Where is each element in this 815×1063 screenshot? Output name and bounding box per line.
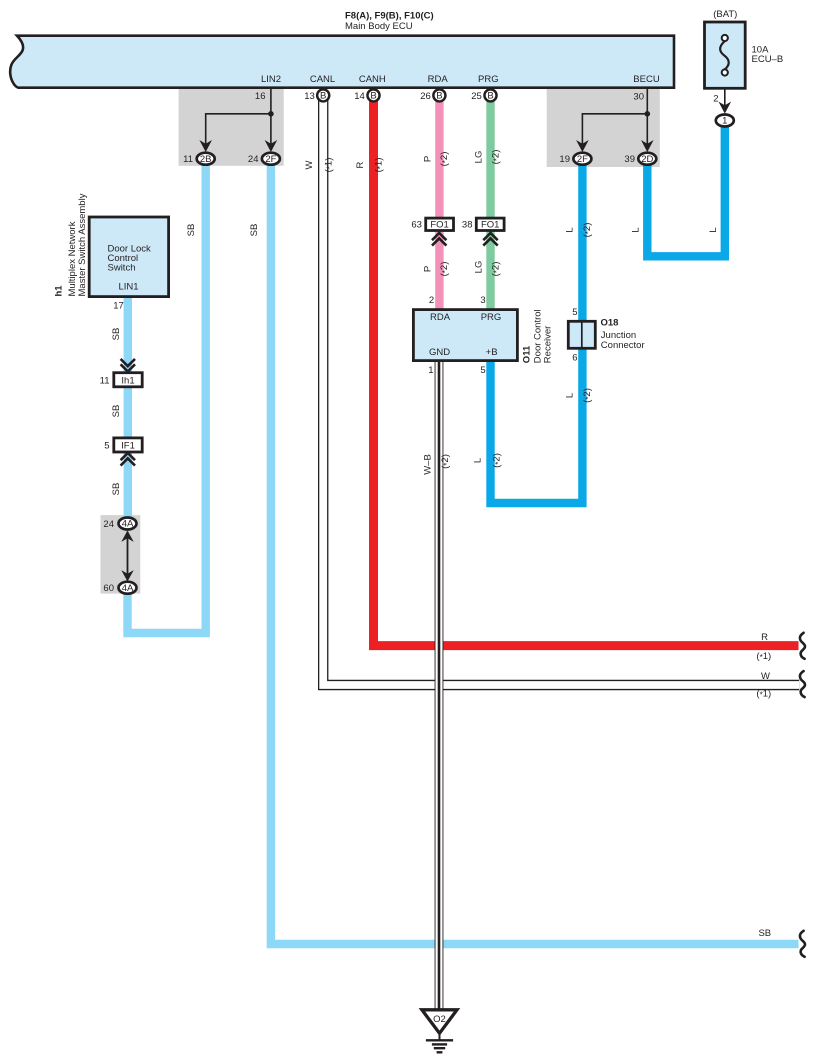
svg-text:5: 5: [572, 307, 577, 318]
label LG upper on PRG wire: [474, 151, 485, 164]
label O11: [522, 345, 533, 363]
svg-text:4A: 4A: [122, 519, 134, 530]
O11 pin 2: [429, 295, 434, 306]
label Door Control: [533, 309, 544, 363]
wire SB from 2B to 4A link: [128, 165, 206, 633]
svg-text:LG: LG: [474, 151, 485, 164]
arrow into fuse output 1: [719, 102, 732, 114]
label (*2) lower on RDA wire: [439, 262, 450, 277]
svg-text:1: 1: [722, 116, 727, 127]
svg-text:L: L: [472, 458, 483, 463]
wire P from RDA to O11: [435, 100, 443, 310]
FO1 connector pin 38: [462, 218, 504, 230]
connector circle B pin 26: [433, 89, 445, 101]
svg-text:(*1): (*1): [756, 689, 771, 700]
ECU pin PRG: [471, 74, 498, 102]
O11 Door Control Receiver box: [413, 310, 517, 361]
svg-text:IF1: IF1: [121, 440, 135, 451]
ECU pin CANH: [354, 74, 386, 102]
label P upper on RDA wire: [423, 156, 434, 162]
label SB at right end: [758, 928, 771, 939]
svg-text:2D: 2D: [641, 154, 653, 165]
junction node on BECU branch: [645, 111, 651, 117]
svg-text:2B: 2B: [200, 154, 212, 165]
svg-text:CANL: CANL: [310, 74, 335, 85]
svg-text:39: 39: [624, 154, 635, 165]
svg-text:11: 11: [100, 375, 110, 386]
wire LIN2 branch inside splice block: [206, 88, 271, 146]
svg-text:O11: O11: [522, 345, 533, 363]
svg-text:(*2): (*2): [439, 262, 450, 277]
svg-text:P: P: [423, 266, 434, 272]
label L on +B wire: [472, 458, 483, 463]
wire W-B from GND to ground: [435, 360, 444, 1010]
arrow into 2B: [199, 140, 212, 152]
ground stem and hatching: [426, 1033, 453, 1052]
label P lower on RDA wire: [423, 266, 434, 272]
svg-text:RDA: RDA: [428, 74, 449, 85]
svg-text:(BAT): (BAT): [713, 9, 737, 20]
label (BAT): [713, 9, 737, 20]
ECU pin LIN2: [255, 74, 281, 102]
svg-text:13: 13: [304, 91, 315, 102]
svg-text:W: W: [304, 160, 315, 169]
svg-text:19: 19: [559, 154, 570, 165]
connector circle B pin 14: [367, 89, 379, 101]
arrow into 2D: [641, 140, 654, 152]
svg-text:O18: O18: [601, 318, 619, 329]
wire BECU branch inside splice block: [582, 88, 647, 146]
wire L from 2D to fuse: [647, 127, 725, 257]
svg-text:SB: SB: [249, 224, 260, 237]
svg-text:SB: SB: [111, 405, 122, 418]
svg-text:W: W: [761, 671, 770, 682]
svg-text:SB: SB: [111, 483, 122, 496]
svg-text:LIN2: LIN2: [261, 74, 281, 85]
O18 pin 5: [572, 307, 577, 318]
svg-text:63: 63: [411, 220, 422, 231]
label 10A: [752, 45, 770, 56]
label Multiplex Network: [67, 221, 78, 296]
svg-text:GND: GND: [429, 347, 450, 358]
svg-text:PRG: PRG: [481, 312, 502, 323]
svg-text:L: L: [565, 227, 576, 232]
switch pin 17: [113, 301, 124, 312]
svg-text:LG: LG: [474, 261, 485, 274]
O18 Junction Connector box: [568, 321, 595, 348]
svg-text:30: 30: [633, 92, 644, 103]
label (*1) on CANH wire: [374, 158, 385, 173]
svg-text:2: 2: [429, 295, 434, 306]
connector oval 2D pin 39: [624, 153, 656, 166]
svg-text:1: 1: [428, 365, 433, 376]
svg-text:(*2): (*2): [491, 262, 502, 277]
svg-text:Switch: Switch: [108, 263, 136, 274]
label (*2) upper on PRG wire: [491, 150, 502, 165]
label (*2) upper on RDA wire: [439, 152, 450, 167]
label W on CANL wire: [304, 160, 315, 169]
svg-text:FO1: FO1: [481, 220, 499, 231]
arrow into 2F right: [576, 140, 589, 152]
connector oval 1 below fuse: [716, 115, 734, 127]
O11 pin 1: [428, 365, 433, 376]
chevron under FO1 pin 63: [432, 233, 446, 246]
ground O2 triangle: [422, 1010, 457, 1034]
svg-text:h1: h1: [54, 285, 65, 297]
svg-text:26: 26: [420, 91, 431, 102]
svg-text:(*1): (*1): [756, 651, 771, 662]
svg-text:Receiver: Receiver: [542, 326, 553, 364]
svg-text:B: B: [370, 91, 376, 102]
svg-text:16: 16: [255, 91, 266, 102]
connector circle B pin 13: [317, 89, 329, 101]
svg-text:BECU: BECU: [633, 74, 660, 85]
label SB on 2F wire: [249, 224, 260, 237]
svg-text:PRG: PRG: [478, 74, 499, 85]
svg-text:11: 11: [183, 154, 193, 165]
svg-text:L: L: [565, 393, 576, 398]
label R on CANH wire: [355, 161, 366, 168]
ECU pin RDA: [420, 74, 448, 102]
Door Lock Control Switch box h1: [89, 217, 168, 297]
svg-text:L: L: [631, 227, 642, 232]
svg-text:2: 2: [713, 94, 718, 105]
connector oval 4A pin 24: [103, 518, 136, 531]
fuse pin 2 wire: [713, 88, 725, 107]
label Main Body ECU: [345, 21, 413, 32]
svg-text:17: 17: [113, 301, 124, 312]
shaded splice block for 4A connector pair: [101, 515, 141, 594]
svg-text:2F: 2F: [265, 154, 276, 165]
svg-text:60: 60: [103, 583, 114, 594]
IF1 connector pin 5: [104, 438, 142, 452]
svg-text:6: 6: [572, 353, 577, 364]
svg-text:4A: 4A: [122, 583, 134, 594]
svg-text:25: 25: [471, 91, 482, 102]
svg-text:FO1: FO1: [430, 220, 448, 231]
label LG lower on PRG wire: [474, 261, 485, 274]
svg-text:+B: +B: [486, 347, 498, 358]
connector oval 2F pin 19: [559, 153, 591, 166]
svg-text:B: B: [436, 91, 442, 102]
FO1 connector pin 63: [411, 218, 453, 230]
label Master Switch Assembly: [77, 193, 88, 296]
svg-text:O2: O2: [433, 1014, 446, 1025]
label W-B on GND wire: [423, 454, 434, 475]
svg-text:24: 24: [103, 519, 114, 530]
O18 pin 6: [572, 353, 577, 364]
wire SB from 2F to right edge: [271, 165, 799, 944]
label ECU-B: [752, 54, 784, 65]
label Junction: [601, 330, 636, 341]
double arrow between 4A connectors: [121, 531, 133, 582]
svg-text:Ih1: Ih1: [121, 375, 134, 386]
wire SB from switch LIN1 through Ih1 IF1: [124, 297, 132, 518]
label (*1) under R end: [756, 651, 771, 662]
chevron under FO1 pin 38: [483, 233, 497, 246]
svg-text:(*2): (*2): [492, 453, 503, 468]
svg-text:(*2): (*2): [582, 388, 593, 403]
break symbol W wire: [800, 671, 805, 697]
label (*2) on 2F wire upper: [582, 223, 593, 238]
svg-text:(*2): (*2): [440, 454, 451, 469]
svg-text:R: R: [761, 632, 768, 643]
connector oval 2F pin 24: [248, 153, 280, 166]
svg-text:(*2): (*2): [439, 152, 450, 167]
break symbol SB wire: [800, 931, 805, 957]
svg-text:5: 5: [104, 440, 109, 451]
connector circle B pin 25: [484, 89, 496, 101]
svg-text:(*2): (*2): [491, 150, 502, 165]
svg-text:B: B: [487, 91, 493, 102]
junction node on LIN2 branch: [268, 111, 274, 117]
svg-text:LIN1: LIN1: [118, 282, 138, 293]
label (*2) on O18 lower wire: [582, 388, 593, 403]
label SB on LIN1 wire: [111, 328, 122, 341]
break symbol R wire: [800, 633, 805, 659]
svg-text:CANH: CANH: [359, 74, 386, 85]
shaded splice block for LIN2 branch: [179, 88, 284, 166]
svg-text:SB: SB: [758, 928, 771, 939]
svg-text:(*2): (*2): [582, 223, 593, 238]
svg-text:R: R: [355, 161, 366, 168]
svg-text:24: 24: [248, 154, 259, 165]
svg-text:(*1): (*1): [374, 158, 385, 173]
label (*2) on GND wire: [440, 454, 451, 469]
label (*1) on CANL wire: [324, 158, 335, 173]
label F8(A), F9(B), F10(C): [345, 11, 434, 22]
shaded splice block for BECU branch: [547, 88, 660, 167]
label (*2) on +B wire: [492, 453, 503, 468]
label R at right end: [761, 632, 768, 643]
label h1: [54, 285, 65, 297]
fuse ECU-B box: [705, 22, 746, 88]
svg-text:14: 14: [354, 91, 365, 102]
wire LG from PRG to O11: [486, 100, 494, 310]
connector oval 4A pin 60: [103, 582, 136, 595]
chevron above Ih1: [121, 359, 135, 372]
svg-text:5: 5: [480, 365, 485, 376]
Ih1 connector pin 11: [100, 373, 143, 387]
O11 pin 5: [480, 365, 485, 376]
label SB between Ih1 and IF1: [111, 405, 122, 418]
arrow into 2F left: [265, 140, 278, 152]
svg-text:L: L: [708, 227, 719, 232]
label (*1) under W end: [756, 689, 771, 700]
fuse element symbol: [720, 35, 729, 76]
label L on 2F wire upper: [565, 227, 576, 232]
svg-text:P: P: [423, 156, 434, 162]
label W at right end: [761, 671, 770, 682]
svg-text:Connector: Connector: [601, 340, 645, 351]
ECU pin CANL: [304, 74, 335, 102]
svg-text:3: 3: [480, 295, 485, 306]
O11 pin 3: [480, 295, 485, 306]
label Receiver: [542, 326, 553, 364]
svg-text:SB: SB: [111, 328, 122, 341]
svg-text:RDA: RDA: [430, 312, 451, 323]
svg-text:(*1): (*1): [324, 158, 335, 173]
svg-text:W–B: W–B: [423, 454, 434, 475]
label L on fuse wire: [708, 227, 719, 232]
svg-text:38: 38: [462, 220, 473, 231]
label SB above 4A: [111, 483, 122, 496]
svg-text:2F: 2F: [577, 154, 588, 165]
wire W from CANL: [323, 100, 799, 685]
Main Body ECU box: [10, 36, 674, 88]
svg-text:SB: SB: [186, 224, 197, 237]
svg-text:ECU–B: ECU–B: [752, 54, 784, 65]
wire R from CANH: [374, 100, 799, 646]
ECU pin BECU: [633, 74, 660, 103]
label SB on 2B wire: [186, 224, 197, 237]
svg-text:B: B: [320, 91, 326, 102]
label L on 2D wire: [631, 227, 642, 232]
label O18: [601, 318, 619, 329]
wire L from 2F through O18 to O11 +B: [491, 165, 583, 503]
svg-text:Master Switch Assembly: Master Switch Assembly: [77, 193, 88, 296]
svg-text:Main Body ECU: Main Body ECU: [345, 21, 413, 32]
label (*2) lower on PRG wire: [491, 262, 502, 277]
label L on O18 lower wire: [565, 393, 576, 398]
label Connector: [601, 340, 645, 351]
chevron below IF1: [121, 453, 135, 466]
connector oval 2B pin 11: [183, 153, 215, 166]
